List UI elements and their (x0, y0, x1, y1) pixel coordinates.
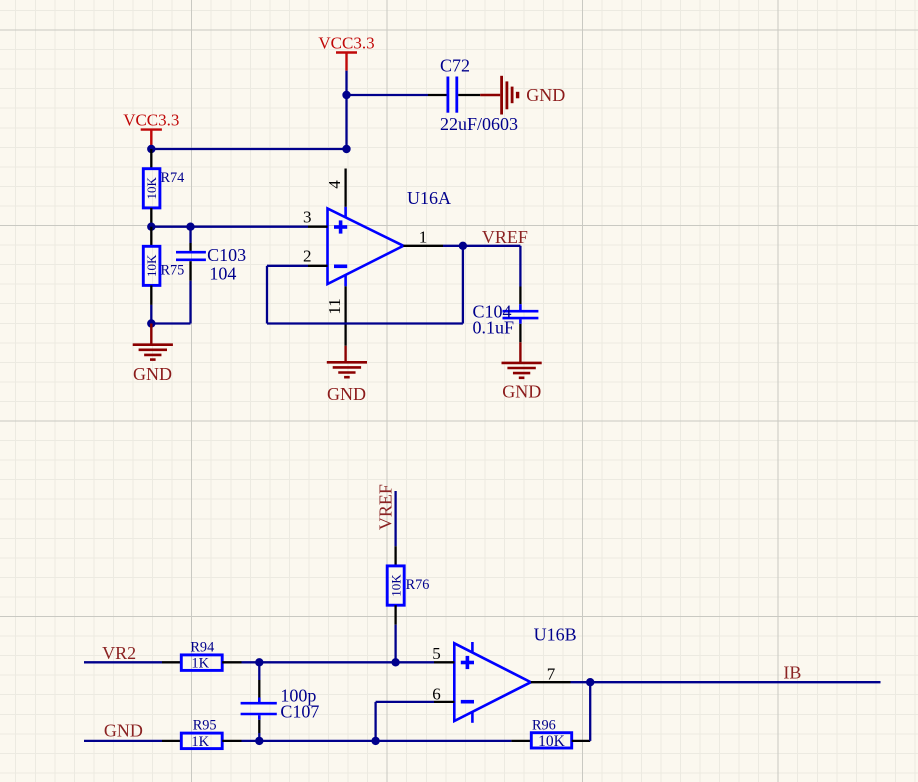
node J6 (147, 319, 155, 327)
node J7 (459, 242, 467, 250)
wire (376, 701, 434, 703)
ground GND (below U16A) (327, 346, 367, 404)
node J4 (147, 223, 155, 231)
wire (519, 246, 521, 287)
wire (463, 245, 521, 247)
wire (571, 681, 591, 683)
wire (151, 148, 346, 150)
resistor R95 (162, 718, 242, 751)
svg-text:GND: GND (526, 85, 565, 105)
wire (376, 740, 512, 742)
svg-text:1: 1 (419, 227, 428, 246)
svg-text:1K: 1K (191, 734, 209, 750)
capacitor C72 (428, 56, 518, 135)
wire (267, 322, 463, 324)
wire (84, 661, 162, 663)
svg-text:U16A: U16A (407, 188, 451, 208)
svg-text:10K: 10K (538, 733, 566, 750)
wire (191, 226, 309, 228)
pin 7 (U16B OUT) (531, 664, 571, 683)
svg-text:C103: C103 (207, 245, 246, 265)
svg-text:5: 5 (432, 644, 441, 663)
wire (259, 661, 395, 663)
resistor R94 (162, 639, 242, 671)
svg-text:VR2: VR2 (102, 643, 136, 663)
resistor R96 (511, 718, 590, 750)
node J3 (147, 145, 155, 153)
resistor R74 (143, 149, 184, 227)
resistor R75 (143, 227, 184, 305)
node J8 (255, 658, 263, 666)
svg-text:4: 4 (325, 180, 344, 189)
pin 6 (U16B -IN) (432, 684, 454, 703)
wire (242, 740, 260, 742)
capacitor C103 (176, 227, 246, 284)
node J11 (371, 737, 379, 745)
svg-text:VREF: VREF (482, 227, 528, 247)
svg-text:GND: GND (327, 384, 366, 404)
svg-text:10K: 10K (144, 177, 159, 200)
op-amp U16B (454, 625, 576, 723)
pin 11 (U16A V-) (325, 286, 346, 346)
wire (151, 226, 190, 228)
wire (189, 281, 191, 324)
wire (590, 681, 880, 683)
svg-text:C107: C107 (280, 702, 319, 722)
node J10 (255, 737, 263, 745)
wire (462, 246, 464, 324)
wire (to pin 6) (374, 702, 376, 741)
wire (347, 94, 429, 96)
svg-text:22uF/0603: 22uF/0603 (440, 114, 518, 134)
svg-text:VCC3.3: VCC3.3 (123, 111, 179, 130)
svg-text:R74: R74 (161, 170, 185, 186)
pin 2 (U16A -IN) (303, 246, 328, 265)
svg-text:1K: 1K (191, 656, 209, 672)
wire (feedback) (267, 265, 308, 267)
node J5 (186, 223, 194, 231)
svg-text:GND: GND (133, 364, 172, 384)
wire (589, 682, 591, 741)
node J1 (342, 91, 350, 99)
wire (345, 71, 347, 95)
wire (394, 625, 396, 663)
wire (151, 322, 190, 324)
ground GND (right of C72, rotated) (480, 76, 565, 115)
resistor R76 (387, 546, 429, 625)
svg-text:R75: R75 (161, 262, 185, 278)
svg-text:104: 104 (209, 264, 236, 284)
wire (266, 266, 268, 324)
svg-text:3: 3 (303, 207, 312, 226)
ground GND (below C104) (502, 342, 542, 401)
svg-text:10K: 10K (144, 254, 159, 277)
wire (394, 491, 396, 546)
svg-text:GND: GND (502, 382, 541, 402)
node J2 (342, 145, 350, 153)
svg-text:6: 6 (432, 684, 441, 703)
op-amp U16A (328, 188, 452, 286)
pin 5 (U16B +IN) (432, 644, 454, 663)
svg-text:U16B: U16B (534, 625, 577, 645)
svg-text:11: 11 (325, 298, 344, 314)
svg-text:R95: R95 (193, 718, 217, 734)
svg-text:GND: GND (104, 721, 143, 741)
svg-text:R94: R94 (190, 639, 214, 655)
capacitor C107 (241, 662, 320, 733)
wire (259, 740, 375, 742)
wire (242, 661, 260, 663)
pin 4 (U16A V+) (325, 169, 346, 207)
svg-text:2: 2 (303, 246, 312, 265)
svg-text:VCC3.3: VCC3.3 (318, 33, 374, 52)
svg-text:R76: R76 (406, 577, 430, 593)
svg-text:R96: R96 (532, 718, 556, 734)
node J9 (391, 658, 399, 666)
capacitor C104 (473, 287, 539, 343)
svg-text:10K: 10K (388, 574, 403, 597)
wire (396, 661, 434, 663)
wire (258, 733, 260, 741)
svg-text:IB: IB (783, 663, 801, 683)
wire (150, 305, 152, 324)
svg-text:C72: C72 (440, 56, 470, 76)
pin 3 (U16A +IN) (303, 207, 328, 226)
svg-text:7: 7 (547, 664, 556, 683)
node J12 (586, 678, 594, 686)
svg-text:VREF: VREF (375, 484, 395, 530)
wire (443, 245, 463, 247)
pin 1 (U16A OUT) (403, 227, 443, 246)
power VCC3.3 (left) (123, 111, 179, 147)
wire (84, 740, 162, 742)
wire (345, 95, 347, 149)
svg-text:0.1uF: 0.1uF (473, 317, 515, 337)
ground GND (below R75) (133, 324, 173, 385)
power VCC3.3 (top) (318, 33, 374, 70)
